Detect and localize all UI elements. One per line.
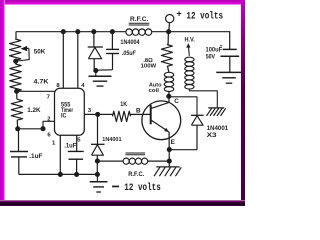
transistor Q1 circle <box>142 101 181 140</box>
node C3 on bottom rail <box>74 172 79 177</box>
wire D3 bottom lead <box>196 125 198 150</box>
wire R3 bottom lead <box>16 120 19 129</box>
wire node to pin2 branch <box>18 128 43 130</box>
node emitter junction 2 <box>167 159 172 164</box>
svg-text:H.V.: H.V. <box>185 37 196 43</box>
wire D2 top lead <box>97 114 99 144</box>
inductor L4 R.F.C. bottom (4 loops) <box>123 158 148 164</box>
svg-text:4: 4 <box>81 83 85 89</box>
wire R5 to L2 <box>168 66 169 72</box>
svg-text:50V: 50V <box>206 54 215 60</box>
node R2 bottom junction <box>14 89 19 94</box>
wire pot-to-R2 <box>15 60 17 64</box>
node +12V on rail <box>166 29 171 34</box>
wire R2-to-R3 <box>16 91 18 99</box>
node H.V. arrow <box>186 43 190 56</box>
pin 1 label <box>52 140 56 146</box>
label coil <box>149 88 160 94</box>
capacitor C1 .05uF plates <box>106 49 119 53</box>
wire ground stub bottom-left <box>96 174 98 181</box>
ground earth bottom-left <box>90 182 108 192</box>
op-amp U1 555 timer body <box>55 88 85 135</box>
svg-text:1N4001: 1N4001 <box>207 126 229 132</box>
node pins2-6 junction left <box>15 126 20 131</box>
svg-text:12 volts: 12 volts <box>186 10 223 22</box>
svg-text:B: B <box>136 107 141 114</box>
transistor Q1 emitter arrowhead <box>164 128 169 132</box>
label emitter E <box>171 139 175 146</box>
pin 7 label <box>47 94 51 100</box>
svg-text:.05uF: .05uF <box>122 51 136 57</box>
label R1 50K <box>34 48 46 55</box>
node collector junction <box>166 94 171 99</box>
wire C1 bottom lead <box>112 54 114 70</box>
pin 8 wire <box>62 32 64 88</box>
ground chassis emitter <box>154 167 181 176</box>
pin 6 label <box>47 133 51 139</box>
label base B <box>136 107 141 114</box>
wire pin7 run <box>17 90 55 92</box>
svg-text:X3: X3 <box>207 132 218 139</box>
svg-text:50K: 50K <box>34 48 46 55</box>
svg-text:6: 6 <box>47 133 51 139</box>
label C3 .1uF <box>64 144 76 150</box>
wire emitter lead <box>168 132 170 167</box>
node pot bottom junction <box>13 59 18 64</box>
svg-text:C: C <box>174 98 179 105</box>
svg-text:1N4001: 1N4001 <box>102 137 122 143</box>
svg-text:E: E <box>171 139 175 146</box>
wire pin2 branch up <box>43 121 55 128</box>
wire +12V terminal stub <box>168 23 171 32</box>
svg-text:100W: 100W <box>141 64 157 70</box>
label D3 X3 <box>207 132 218 139</box>
pin 3 label <box>88 108 92 114</box>
wire top rail mid segment <box>152 31 169 33</box>
node pin4 on rail <box>75 29 80 34</box>
label C1 .05uF <box>122 51 136 57</box>
transistor Q1 collector stroke <box>151 102 169 108</box>
svg-text:4.7K: 4.7K <box>34 79 49 86</box>
pin 5 wire <box>76 135 78 151</box>
svg-text:7: 7 <box>47 94 51 100</box>
label - 12 volts dash <box>112 186 119 188</box>
node D2 on bottom rail <box>95 172 100 177</box>
potentiometer R1 wiper arrowhead <box>21 46 28 51</box>
svg-text:IC: IC <box>61 113 67 120</box>
wire C4 to ground <box>229 56 231 72</box>
inductor L1 R.F.C. top (4 loops) <box>126 29 152 35</box>
wire 1K to base <box>131 113 151 115</box>
potentiometer R1 wiper arm <box>18 48 30 61</box>
label - 12 volts <box>124 182 161 194</box>
wire L4 lead right <box>148 160 170 162</box>
node D1-C1 ground junction <box>93 68 98 73</box>
svg-text:5: 5 <box>77 138 81 144</box>
transistor Q1 emitter stroke <box>151 120 169 132</box>
label L1 R.F.C. <box>130 16 149 23</box>
label D1 1N4004 <box>120 40 140 46</box>
capacitor C4 100uF plates <box>220 49 239 56</box>
label D3 1N4001 <box>207 126 229 132</box>
resistor R4 1K body <box>113 111 131 121</box>
capacitor C3 .1uF plates <box>68 151 84 159</box>
label collector C <box>174 98 179 105</box>
svg-text:1N4004: 1N4004 <box>120 40 140 46</box>
label R3 1.2K <box>27 107 41 114</box>
svg-text:coil: coil <box>149 88 160 94</box>
label H.V. <box>185 37 196 43</box>
pin 4 wire <box>77 32 79 88</box>
node emitter junction 1 <box>167 147 172 152</box>
wire D2 bottom lead <box>96 155 98 174</box>
svg-text:1: 1 <box>52 140 56 146</box>
pin 3 wire <box>84 113 97 115</box>
wire 8-ohm top lead <box>167 32 169 45</box>
svg-text:12 volts: 12 volts <box>124 182 161 194</box>
label U1 IC <box>61 113 67 120</box>
terminal +12 volts circle <box>166 15 174 23</box>
wire 1K lead left <box>98 113 113 115</box>
label C4 50V <box>206 54 215 60</box>
svg-text:R.F.C.: R.F.C. <box>130 16 149 23</box>
pin 5 label <box>77 138 81 144</box>
wire collector lead <box>168 96 170 103</box>
svg-text:1K: 1K <box>120 101 127 108</box>
wire L3 bottom to ground <box>189 89 217 108</box>
ground earth mid <box>89 76 112 86</box>
pin 4 label <box>81 83 85 89</box>
diode D2 1N4001 <box>91 144 105 155</box>
diode D3 1N4001 X3 <box>191 115 204 125</box>
wire D1 bottom lead <box>93 59 95 70</box>
svg-text:.1uF: .1uF <box>64 144 76 150</box>
wire L4 lead left <box>97 160 123 162</box>
svg-text:+: + <box>220 44 223 49</box>
node pin1 on bottom rail <box>58 172 63 177</box>
wire top +12V rail left segment <box>16 31 126 33</box>
label R5 100W <box>141 64 157 70</box>
ground chassis secondary <box>207 108 226 116</box>
wire ground stub mid <box>95 71 97 77</box>
node pin2 branch corner <box>40 126 45 131</box>
label L4 R.F.C. <box>128 172 145 178</box>
label U1 Timer <box>61 107 73 114</box>
label R5 .8 ohm <box>143 58 153 64</box>
svg-text:.1uF: .1uF <box>29 154 43 160</box>
svg-text:1.2K: 1.2K <box>27 107 41 114</box>
wire D1 top lead <box>93 32 95 47</box>
capacitor C2 .1uF plates <box>10 152 28 157</box>
pin 8 label <box>56 83 60 89</box>
node D1 on rail <box>91 29 96 34</box>
pin 2 label <box>47 116 51 122</box>
label R2 4.7K <box>34 79 49 86</box>
label Auto <box>149 83 162 89</box>
wire C1 bottom link <box>94 69 112 71</box>
resistor R3 1.2K body <box>11 99 22 120</box>
potentiometer R1 50K body <box>10 39 21 60</box>
label U1 555 <box>61 101 71 108</box>
wire L2 bottom lead <box>168 92 170 97</box>
wire top rail right segment <box>169 31 230 49</box>
pin 1 wire <box>59 135 61 174</box>
node C1 on rail <box>110 29 115 34</box>
resistor R5 8-ohm body <box>161 45 172 67</box>
ground earth top-right <box>216 72 242 83</box>
svg-text:R.F.C.: R.F.C. <box>128 172 145 178</box>
wire C3 to rail <box>76 159 78 174</box>
resistor R2 4.7K body <box>10 64 21 91</box>
node pin8 on rail <box>61 29 66 34</box>
wire emitter to D3 <box>169 149 197 151</box>
wire pot top lead <box>15 32 17 39</box>
svg-text:+: + <box>176 10 181 20</box>
wire bottom ground rail <box>19 173 98 175</box>
wire collector to D3 <box>169 97 197 116</box>
node pin3 output <box>95 112 100 117</box>
transistor Q1 base bar <box>150 105 152 125</box>
inductor L2 auto coil primary (4 loops) <box>164 72 173 91</box>
label C2 .1uF <box>29 154 43 160</box>
svg-text:3: 3 <box>88 108 92 114</box>
inductor L4 core lines <box>126 153 146 155</box>
diode D1 1N4004 <box>88 47 103 59</box>
wire C2 to bottom rail <box>18 157 20 175</box>
node D2-L4 junction <box>95 159 100 164</box>
inductor L1 core lines <box>129 23 150 25</box>
label + 12 volts <box>176 10 223 23</box>
label D2 1N4001 <box>102 137 122 143</box>
label R4 1K <box>120 101 127 108</box>
inductor L3 auto coil secondary (7 loops) <box>185 57 194 89</box>
label C4 100uF <box>206 44 223 53</box>
wire timing-cap drop <box>18 129 20 152</box>
wire C1 top lead <box>111 32 113 50</box>
